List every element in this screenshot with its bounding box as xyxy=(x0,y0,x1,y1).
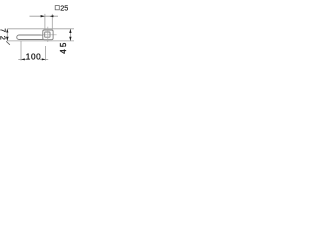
node: left dimension top arrowhead xyxy=(6,29,8,33)
wire: top dimension line xyxy=(30,15,59,17)
node A: head outer square (escutcheon front view) xyxy=(43,30,53,40)
wire: bottom dimension line right segment xyxy=(40,58,48,60)
wire: bottom reference line B xyxy=(7,40,74,42)
node: left dimension bottom arrowhead xyxy=(6,37,9,41)
svg-text:100: 100 xyxy=(26,52,41,61)
node B: head inner square (spout tube outlet) xyxy=(45,32,50,37)
wire: extension line left of top dimension xyxy=(44,14,46,30)
wire: extension line right of top dimension xyxy=(51,14,53,30)
wire: oblique break slash at left dimension foot xyxy=(6,41,10,45)
wire: extension line left of bottom dimension xyxy=(20,41,22,61)
wire: left dimension line (vertical) xyxy=(6,29,8,41)
node: square-section symbol of label xyxy=(55,6,59,10)
wire: right dimension line (vertical) xyxy=(69,29,71,41)
wire: spout arm capsule outline (side view, rounded left end) xyxy=(17,35,43,40)
wire: horizontal centerline through head (arm top extension) xyxy=(41,34,57,36)
node: bottom dimension right arrowhead xyxy=(42,58,46,60)
wire: extension line right of bottom dimension xyxy=(45,46,47,61)
wire: vertical centerline of head xyxy=(47,27,49,42)
svg-text:45: 45 xyxy=(59,40,68,53)
node: right dimension bottom arrowhead xyxy=(69,37,71,41)
node: top dimension right arrowhead xyxy=(50,15,54,17)
wire: top reference line A xyxy=(7,28,74,30)
svg-text:72: 72 xyxy=(0,28,7,43)
background xyxy=(0,0,74,74)
node: bottom dimension left arrowhead xyxy=(21,58,25,60)
svg-text:25: 25 xyxy=(60,3,68,12)
wire: bottom dimension line left segment xyxy=(18,58,26,60)
node: top dimension left arrowhead xyxy=(41,15,45,17)
node: right dimension top arrowhead xyxy=(69,29,71,33)
